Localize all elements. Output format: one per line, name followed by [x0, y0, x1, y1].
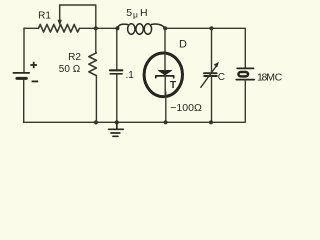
variable capacitor C: [204, 73, 217, 76]
svg-text:.1: .1: [126, 70, 135, 81]
wire variable cap to bottom: [211, 77, 213, 123]
node B: [115, 26, 119, 30]
node A: [94, 26, 98, 30]
tunnel diode D circle: [144, 53, 182, 97]
wire left branch down: [23, 28, 25, 72]
svg-text:μ: μ: [133, 9, 138, 19]
wire wiper loop: [60, 5, 96, 28]
resistor R2: [89, 53, 97, 76]
wire top right segment: [212, 27, 246, 29]
variable cap arrow: [201, 66, 216, 87]
resistor R1: [39, 24, 80, 32]
node variable cap bottom: [209, 120, 213, 124]
crystal Y1 18MC: [236, 68, 254, 79]
wire top left segment: [24, 27, 39, 29]
wire node B down to C1: [116, 28, 118, 69]
svg-text:5: 5: [126, 7, 132, 19]
svg-text:50 Ω: 50 Ω: [59, 64, 81, 75]
wire battery to bottom: [23, 80, 25, 123]
node diode bottom: [164, 120, 168, 124]
svg-text:R1: R1: [38, 11, 51, 22]
wire crystal to bottom: [244, 80, 246, 123]
wire node D down: [211, 28, 213, 72]
label -: [32, 80, 39, 82]
wire bottom: [24, 121, 245, 123]
label +: [30, 62, 37, 69]
inductor L1 5uH: [117, 24, 165, 34]
wire R1 to node A: [80, 27, 96, 29]
svg-text:T: T: [170, 80, 176, 91]
svg-text:R2: R2: [68, 52, 81, 63]
svg-text:D: D: [179, 39, 187, 51]
ground: [109, 122, 124, 136]
wire top right corner down to crystal: [244, 28, 246, 68]
R1 wiper arrow: [59, 5, 61, 21]
svg-text:−100Ω: −100Ω: [170, 102, 202, 114]
wire C1 to bottom: [116, 75, 118, 123]
svg-text:H: H: [140, 7, 148, 19]
node D (variable cap branch): [209, 26, 213, 30]
wire node C to node D: [165, 27, 211, 29]
wire node C to diode: [164, 28, 166, 53]
node bottom R2: [94, 120, 98, 124]
node ground junction: [115, 120, 119, 124]
svg-text:C: C: [218, 72, 225, 83]
wire R2 to bottom: [95, 76, 97, 123]
battery B1: [13, 73, 29, 79]
wire node A to node B: [96, 27, 118, 29]
tunnel diode symbol: [156, 71, 174, 78]
capacitor C1 .1: [110, 70, 122, 74]
wire node A to R2: [95, 28, 98, 53]
node C (diode branch top): [163, 26, 167, 30]
wire diode to bottom: [164, 53, 167, 122]
svg-text:MC: MC: [266, 71, 282, 83]
